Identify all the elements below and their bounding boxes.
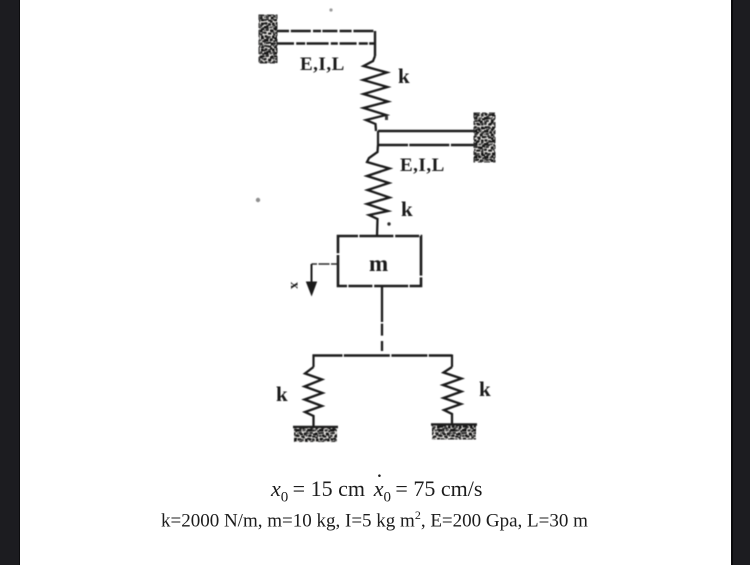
svg-text:k: k: [479, 377, 491, 401]
wall W1 (top-left fixed support): [259, 15, 277, 63]
mass block m: [338, 236, 421, 286]
svg-text:m: m: [369, 251, 388, 276]
right dark viewer bar: [731, 0, 750, 565]
x arrow shaft: [311, 264, 313, 284]
spring K3 (lower-left spring k): [305, 367, 323, 427]
ground G2 (lower-right): [431, 425, 477, 440]
svg-text:k: k: [401, 197, 413, 221]
svg-text:E,I,L: E,I,L: [300, 54, 345, 75]
wall W2 (right fixed support): [474, 113, 495, 162]
spring K1 (upper spring k): [363, 56, 388, 131]
spring K2 (lower spring k between beam B2 and mass): [367, 145, 390, 236]
speck artifact near beam B2 left end: [385, 116, 388, 120]
svg-text:E,I,L: E,I,L: [400, 155, 445, 176]
wire from mass to lower bar: [381, 286, 383, 351]
wire bar right corner: [451, 355, 453, 368]
x arrowhead: [306, 282, 317, 297]
svg-text:x: x: [287, 282, 302, 289]
wire bar left corner: [312, 355, 314, 368]
caption line 1: initial conditions: [271, 476, 482, 506]
svg-text:k: k: [398, 64, 410, 88]
speck artifact left of spring K2: [256, 198, 260, 202]
spring K4 (lower-right spring k): [443, 367, 462, 424]
speck artifact near top: [329, 8, 332, 11]
beam B2 "E,I,L" cantilever to wall W2: [378, 131, 476, 145]
left dark viewer bar: [0, 0, 20, 565]
lower horizontal bar: [313, 354, 453, 356]
svg-text:k: k: [276, 382, 288, 406]
beam B1 "E,I,L" cantilever from wall W1: [277, 31, 375, 56]
speck artifact near spring K2 bottom: [387, 222, 390, 225]
caption line 2: parameter values: [161, 508, 588, 532]
ground G1 (lower-left): [293, 427, 338, 442]
x displacement reference line: [312, 263, 339, 265]
